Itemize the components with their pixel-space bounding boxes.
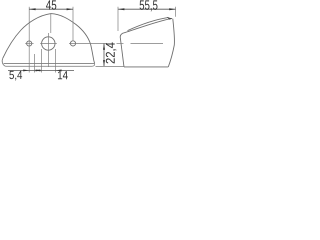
left end cap of base [2,58,5,66]
arrow left of 55,5 [118,8,124,10]
label 14 [58,71,68,79]
label 45 [46,0,56,9]
extension line at x=55.6 [55,49,57,73]
central vertical centerline from dome peak [49,14,51,67]
arrow down tip [103,60,105,66]
arrow left-pointing tip 34.4 [34,69,40,71]
side view top-left fillet [120,33,124,37]
base bottom gasket line [5,63,94,66]
extension line at x=118 [117,7,119,31]
central circle horizontal centerline [40,43,57,45]
lens dome outline (front view) [3,14,95,64]
arrow right-pointing tip 41.6 [36,69,42,71]
central bulb circle [42,37,55,50]
arrow right-pointing tip 29.2 [23,69,29,71]
side view lens upper curve [128,17,169,30]
left hole horizontal tick [25,43,33,45]
label 22,4 [106,42,117,63]
side view bottom edge [124,66,168,68]
extension line at x=29.2 [28,7,30,73]
extension line at x=73 [72,7,74,40]
arrow right of 45 [67,8,73,10]
side view centerline dash 2 [131,42,164,44]
side view left edge [120,37,124,67]
arrow right of 55,5 [169,8,175,10]
side view centerline dash 1 [117,42,124,44]
dimension line 45 [29,8,73,10]
label 5,4 [9,71,22,81]
arrow left-pointing tip 55.6 [56,69,62,71]
bottom dimension line (5,4 / 14) [8,69,74,71]
base top line [4,62,95,64]
bottom extension line for 22,4 [96,65,125,67]
dimension line 55,5 [118,8,176,10]
arrow up tip [103,44,105,50]
left mounting hole [27,41,32,46]
extension line at x=41.6 [41,49,43,73]
extension line at x=34.4 [33,54,35,73]
extension line at x=175.6 [175,7,177,17]
dimension 22,4 vertical line [103,44,105,67]
hole axis centerline extending right toward side view [69,42,107,44]
side view lens lower curve [125,18,172,32]
lens tip blob [167,17,173,20]
label 55,5 [140,0,158,11]
side view right edge [168,19,174,67]
right mounting hole [70,41,75,46]
arrow left of 45 [29,8,35,10]
